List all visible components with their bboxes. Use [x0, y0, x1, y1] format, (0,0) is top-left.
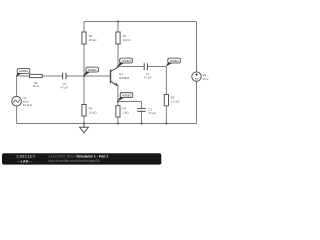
wire bottom ground rail	[17, 123, 197, 125]
svg-text:50 Ω: 50 Ω	[33, 84, 40, 88]
svg-text:2.2 kΩ: 2.2 kΩ	[171, 99, 181, 103]
svg-text:~~LAB~~: ~~LAB~~	[17, 160, 33, 164]
wire collector node to C1	[118, 66, 144, 68]
wire R2 top lead	[83, 22, 85, 33]
wire node4 down to R5	[165, 67, 167, 95]
svg-text:47 µF: 47 µF	[60, 85, 68, 89]
wire C2 bottom lead	[141, 111, 143, 123]
wire C2 top lead	[141, 102, 143, 109]
junction dot collector node	[117, 65, 119, 67]
capacitor C3 plates	[63, 73, 66, 80]
voltage source V3	[192, 72, 201, 81]
svg-text:100 Ω: 100 Ω	[123, 38, 132, 42]
svg-text:47 µF: 47 µF	[148, 111, 156, 115]
wire top rail	[84, 21, 197, 23]
wire R1 bottom to collector node	[117, 44, 119, 67]
svg-text:CIRCUIT: CIRCUIT	[16, 154, 35, 159]
node NODE3 flag	[118, 58, 133, 67]
wire V1 top lead	[16, 76, 18, 96]
svg-text:16 V: 16 V	[202, 77, 208, 81]
junction dot top rail R1	[117, 20, 119, 22]
svg-text:10 kHz: 10 kHz	[23, 103, 33, 107]
svg-text:NODE4: NODE4	[170, 59, 179, 63]
resistor R3 body	[116, 106, 120, 117]
wire signal V1 to R6	[17, 75, 30, 77]
resistor R5 body	[164, 95, 168, 106]
node NODE1 flag	[16, 69, 30, 77]
node NODE4 flag	[166, 58, 180, 66]
wire emitter node to C2 branch	[118, 101, 142, 103]
svg-text:1 kΩ: 1 kΩ	[122, 110, 129, 114]
transistor Q1	[111, 67, 119, 86]
junction dot ground R3	[117, 122, 119, 124]
junction dot base node	[83, 75, 85, 77]
wire R6 to C3	[42, 75, 62, 77]
svg-text:10 kΩ: 10 kΩ	[89, 110, 98, 114]
junction dot ground R4	[83, 122, 85, 124]
svg-text:http://circuitlab.com/c/ba4ch4: http://circuitlab.com/c/ba4ch4aejv22/	[49, 159, 101, 163]
resistor R6 body	[30, 74, 43, 77]
ground	[80, 124, 89, 133]
svg-text:NODE5: NODE5	[122, 93, 131, 97]
junction dot emitter node	[117, 100, 119, 102]
svg-text:ELEC2003_Rico / Simulador 1 -: ELEC2003_Rico / Simulador 1 - Part 2	[49, 155, 109, 159]
wire C1 to node4 corner	[147, 66, 166, 68]
capacitor C2 plates	[137, 109, 145, 112]
wire node B to Q1 base	[84, 75, 110, 77]
svg-text:2N3904: 2N3904	[119, 76, 130, 80]
junction dot ground C2	[140, 122, 142, 124]
wire R3 bottom to ground rail	[117, 117, 119, 124]
wire right supply drop upper	[196, 22, 198, 72]
wire R1 top lead	[117, 22, 119, 33]
svg-text:NODE3: NODE3	[122, 59, 131, 63]
node NODE5 flag	[118, 93, 133, 102]
wire R2 bottom lead to base node	[83, 44, 85, 76]
voltage source V1	[12, 96, 22, 106]
wire right supply drop lower	[196, 81, 198, 123]
resistor R4 body	[82, 105, 86, 117]
svg-text:47 µF: 47 µF	[144, 76, 152, 80]
node NODE2 flag	[84, 67, 99, 76]
capacitor C1 plates	[144, 63, 147, 70]
svg-text:18 kΩ: 18 kΩ	[89, 38, 98, 42]
resistor R1 body	[116, 32, 120, 44]
wire R4 bottom to ground rail	[83, 116, 85, 124]
wire R5 bottom to ground rail	[165, 106, 167, 124]
wire C3 to node B divider	[66, 75, 84, 77]
wire emitter vertical	[117, 86, 119, 106]
wire V1 bottom lead	[16, 106, 18, 124]
svg-text:NODE2: NODE2	[88, 68, 97, 72]
watermark bar	[2, 153, 161, 164]
junction dot ground R5	[165, 122, 167, 124]
wire base node to R4	[83, 76, 85, 105]
resistor R2 body	[82, 32, 86, 44]
svg-text:NODE1: NODE1	[19, 69, 28, 73]
